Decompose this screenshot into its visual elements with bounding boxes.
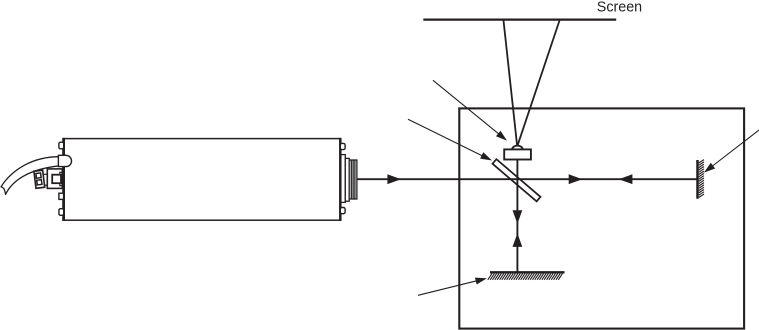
beam splitter (492, 159, 540, 201)
diverging lens body (504, 149, 531, 159)
beam arrow laser to box (387, 174, 401, 184)
screen (423, 19, 616, 21)
leader line to lens (433, 80, 508, 142)
mirror M1 (right, vertical) (698, 160, 705, 199)
connector block (2-pin) (34, 170, 45, 188)
output flange plate (341, 155, 345, 203)
small stub on laser left edge (59, 193, 64, 199)
diverging ray right (518, 21, 560, 146)
diverging lens dome (512, 146, 523, 150)
enclosure box (459, 108, 744, 328)
ribbon cable (1, 157, 60, 195)
leader line to mirror M2 (418, 276, 486, 295)
diverging ray left (504, 21, 518, 146)
laser mounting tab top-right (340, 143, 345, 149)
laser body (64, 138, 341, 221)
mirror M2 (bottom, horizontal) (488, 272, 565, 280)
beam arrow returning from mirror M1 (619, 174, 633, 184)
output flange step (345, 158, 349, 201)
svg-text:Screen: Screen (597, 0, 642, 15)
leader line to beam splitter (408, 119, 492, 162)
connector block (large plug) (44, 169, 63, 189)
beam arrow down to mirror M2 (513, 210, 523, 224)
leader line to mirror M1 (703, 129, 759, 174)
vertical beam (516, 160, 518, 272)
horizontal beam (357, 178, 697, 180)
laser mounting tab top-left (59, 142, 64, 149)
cable gland (58, 155, 71, 166)
beam arrow up from mirror M2 (513, 233, 523, 247)
beam arrow toward mirror M1 (569, 174, 583, 184)
output lens barrel (349, 160, 357, 199)
laser mounting tab bottom-left (59, 209, 64, 216)
laser mounting tab bottom-right (340, 208, 345, 214)
